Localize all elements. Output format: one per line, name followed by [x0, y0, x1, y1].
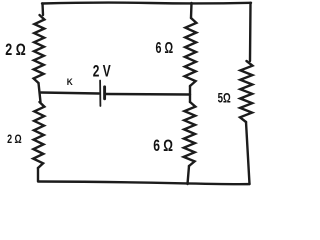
- svg-text:2 Ω: 2 Ω: [7, 132, 22, 146]
- svg-text:K: K: [67, 76, 73, 87]
- svg-text:2 V: 2 V: [93, 62, 111, 81]
- svg-text:5Ω: 5Ω: [218, 91, 231, 106]
- svg-text:6 Ω: 6 Ω: [156, 40, 174, 57]
- svg-text:2 Ω: 2 Ω: [5, 41, 25, 59]
- svg-text:6 Ω: 6 Ω: [153, 136, 173, 155]
